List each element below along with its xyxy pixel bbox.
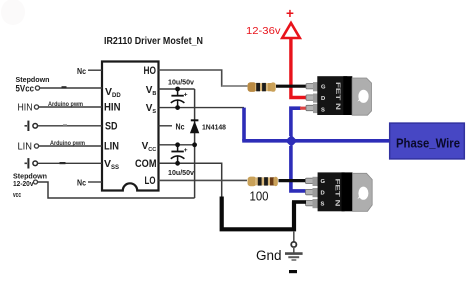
svg-text:Arduino pwm: Arduino pwm <box>50 140 85 147</box>
terminal circle 12-20v <box>34 180 38 184</box>
pin label VCC <box>142 141 157 153</box>
label HIN input <box>18 102 33 114</box>
label Arduino pwm (HIN) <box>48 101 83 108</box>
terminal circle HIN <box>34 105 38 109</box>
wire blue phase rail to Phase_Wire box <box>242 139 390 143</box>
svg-text:HIN: HIN <box>18 102 33 114</box>
label Stepdown 5Vcc <box>16 75 50 95</box>
pin label VB <box>146 85 157 97</box>
svg-text:S: S <box>321 202 325 208</box>
junction VCC riser <box>192 142 197 147</box>
wire blue Q1 source drop <box>291 108 301 136</box>
diode D1 1N4148 <box>190 120 199 133</box>
svg-text:10u/50v: 10u/50v <box>168 80 194 87</box>
pin label VDD <box>105 86 121 99</box>
wire black R1 to Q1 gate <box>276 85 306 88</box>
svg-text:Nc: Nc <box>176 121 185 131</box>
svg-text:HIN: HIN <box>104 102 121 114</box>
ground symbol <box>285 247 303 260</box>
wire VCC rail <box>159 144 195 146</box>
label 10u/50v (C1) <box>168 80 194 87</box>
svg-text:HO: HO <box>144 65 157 77</box>
svg-text:Nc: Nc <box>77 66 86 76</box>
svg-text:12-36v: 12-36v <box>246 25 281 37</box>
svg-text:IR2110 Driver Mosfet_N: IR2110 Driver Mosfet_N <box>104 35 203 47</box>
svg-text:FET N: FET N <box>334 82 341 111</box>
wire VB rail <box>159 88 195 90</box>
node junction (phase node diamond) <box>285 135 297 147</box>
svg-text:100: 100 <box>250 190 269 204</box>
wire blue VS drop <box>242 108 246 141</box>
wire red supply to Q1 drain <box>291 39 306 98</box>
svg-text:1N4148: 1N4148 <box>202 122 226 131</box>
svg-text:+: + <box>184 147 188 154</box>
label Arduino pwm (LIN) <box>50 140 85 147</box>
label 10u/50v (C2) <box>168 170 194 177</box>
svg-text:Nc: Nc <box>77 178 86 188</box>
wire VSS to IC <box>38 162 103 164</box>
wire SD to IC <box>38 124 103 126</box>
ground terminal circle <box>291 242 296 247</box>
wire thick black COM ground bus <box>222 197 294 230</box>
svg-text:G: G <box>321 85 326 91</box>
pin label HO <box>144 65 157 77</box>
svg-text:G: G <box>321 179 326 185</box>
svg-text:S: S <box>321 107 325 113</box>
label Nc top-left <box>77 66 86 76</box>
svg-text:10u/50v: 10u/50v <box>168 170 194 177</box>
pin label VS <box>146 103 157 115</box>
pin label VSS <box>104 158 119 171</box>
wire Nc bottom-left to IC <box>88 181 102 183</box>
label + (supply) <box>286 6 294 21</box>
label LIN input <box>18 141 33 153</box>
capacitor C2 (VCC-COM cap) <box>171 142 188 165</box>
wire 12-20v down and to VCC riser <box>38 182 195 198</box>
wire Nc top-left to IC <box>88 69 102 71</box>
resistor R1 (gate resistor photo) <box>222 82 276 92</box>
label Stepdown 12-20v vcc <box>13 172 47 200</box>
wire black R2 to Q2 gate <box>279 179 307 182</box>
svg-text:Phase_Wire: Phase_Wire <box>396 137 460 151</box>
terminal circle 5Vcc <box>35 86 39 90</box>
label 100 <box>250 190 269 204</box>
wire COM to ground drop <box>159 163 222 197</box>
ground minus mark <box>289 270 297 273</box>
capacitor C1 (VB-VS bootstrap cap) <box>171 87 188 110</box>
svg-text:D: D <box>321 190 325 196</box>
svg-text:COM: COM <box>135 158 157 170</box>
label Nc bottom-left <box>77 178 86 188</box>
pin label LO <box>145 175 156 187</box>
svg-text:+: + <box>286 6 294 21</box>
label Gnd <box>256 248 282 263</box>
ground tap wire <box>293 231 295 242</box>
svg-text:LO: LO <box>145 175 156 187</box>
svg-text:Arduino pwm: Arduino pwm <box>48 101 83 108</box>
MOSFET Q2 (photo, TO-220) <box>306 172 373 211</box>
wire 5Vcc to VDD <box>40 86 102 88</box>
svg-text:+: + <box>184 91 188 98</box>
pin label SD <box>105 121 118 133</box>
pin label HIN <box>104 102 121 114</box>
title <box>104 35 203 47</box>
label 12-36v <box>246 25 281 37</box>
svg-text:D: D <box>321 96 325 102</box>
resistor R2 (gate resistor photo) <box>248 177 278 187</box>
wire blue junction down to Q2 drain <box>291 146 306 191</box>
Phase_Wire box <box>390 123 465 159</box>
wire HIN to IC <box>39 106 102 108</box>
terminal SD (bar + circle) <box>25 121 38 131</box>
wire thick black Q2 source stub <box>292 200 306 204</box>
pin label COM <box>135 158 157 170</box>
svg-text:5Vcc: 5Vcc <box>16 84 35 95</box>
svg-text:LIN: LIN <box>18 141 33 153</box>
svg-text:SD: SD <box>105 121 118 133</box>
svg-text:Gnd: Gnd <box>256 248 282 263</box>
wire LIN to IC <box>39 145 102 147</box>
wire bootstrap riser (VB corner down through diode to VCC and 12-20v) <box>194 89 196 198</box>
power symbol 12-36v triangle <box>282 23 300 38</box>
label Nc (unused pin near diode) <box>159 121 185 131</box>
svg-text:12-20v: 12-20v <box>13 179 34 188</box>
pin label LIN <box>104 141 119 153</box>
label 1N4148 <box>202 122 226 131</box>
wire LO to gate resistor R2 <box>159 179 248 181</box>
wire HO to gate resistor R1 <box>159 70 248 86</box>
wire VS rail <box>159 107 245 109</box>
svg-text:LIN: LIN <box>104 141 119 153</box>
svg-text:vcc: vcc <box>13 190 21 199</box>
terminal circle LIN <box>34 144 38 148</box>
corner smudge artifact <box>1 0 25 25</box>
terminal VSS (bar + circle) <box>25 158 38 168</box>
wire red stub at Q1 source <box>300 107 306 110</box>
svg-text:FET N: FET N <box>333 179 340 208</box>
MOSFET Q1 (photo, TO-220) <box>306 76 372 115</box>
IC U1 body <box>102 62 159 191</box>
